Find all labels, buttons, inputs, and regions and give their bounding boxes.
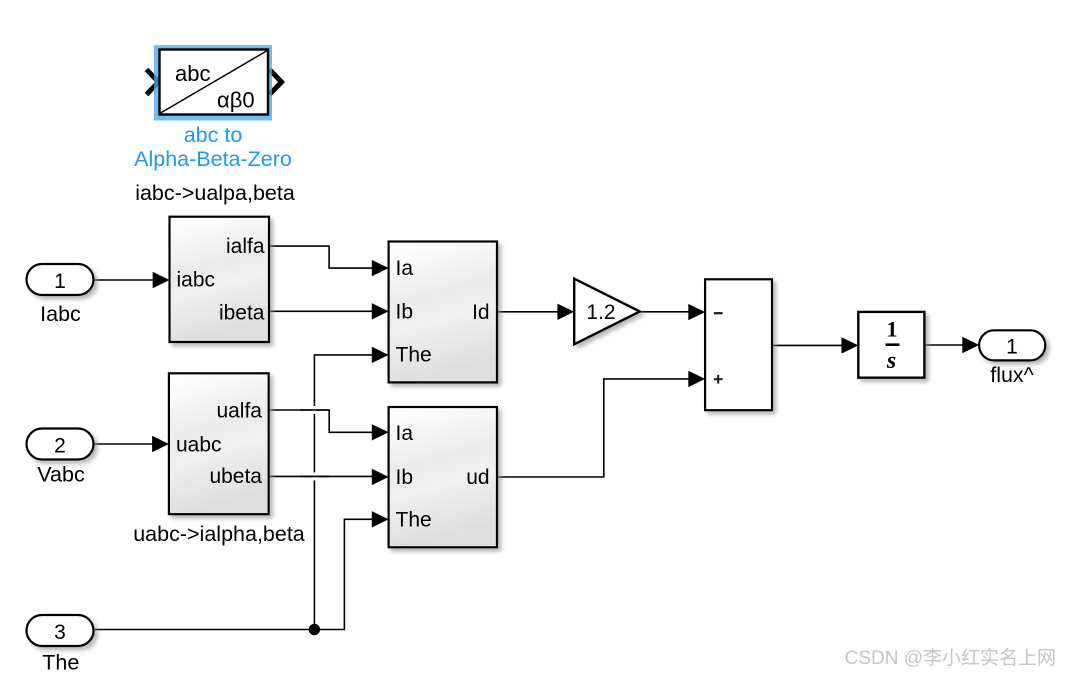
wire: ialfa output to Ia input (block Id) <box>269 246 373 268</box>
U1 body rect <box>160 50 269 115</box>
arrowhead into integrator <box>842 337 859 353</box>
svg-text:abc: abc <box>175 61 210 86</box>
subsystem: uabc -> ualfa/ubeta <box>169 373 269 514</box>
arrowhead into uabc <box>152 436 169 452</box>
wire: inport1 Iabc to subsystem iabc input <box>94 279 157 281</box>
svg-text:ubeta: ubeta <box>209 465 262 488</box>
minus sign <box>714 312 723 314</box>
arrowhead into gain <box>557 304 574 320</box>
svg-text:Ib: Ib <box>396 466 414 489</box>
U1 diagonal line <box>161 51 267 113</box>
svg-text:uabc->ialpha,beta: uabc->ialpha,beta <box>133 522 305 546</box>
svg-text:Ia: Ia <box>396 257 414 280</box>
arrowhead into Ia (ud block) <box>372 424 389 440</box>
svg-text:The: The <box>42 651 79 675</box>
svg-text:ualfa: ualfa <box>216 400 262 423</box>
wire: inport2 Vabc to subsystem uabc input <box>94 443 156 445</box>
arrowhead into Ib (ud block) <box>372 469 389 485</box>
svg-text:ud: ud <box>466 466 489 489</box>
svg-text:iabc: iabc <box>177 269 216 292</box>
wire crossing gap at ubeta line <box>312 472 316 480</box>
svg-text:uabc: uabc <box>176 434 222 457</box>
svg-text:Vabc: Vabc <box>37 463 85 487</box>
svg-text:Iabc: Iabc <box>40 302 81 326</box>
svg-text:s: s <box>886 348 896 374</box>
svg-text:1: 1 <box>887 317 898 342</box>
svg-text:The: The <box>396 344 432 367</box>
svg-text:1: 1 <box>1006 336 1018 359</box>
wire: integrator output to outport <box>924 344 963 346</box>
svg-text:2: 2 <box>54 435 66 458</box>
subsystem: Ia/Ib/The -> Id <box>389 242 497 383</box>
redraw ualfa horizontal over gap <box>300 409 329 411</box>
arrowhead into The (Id block) <box>372 347 389 363</box>
svg-text:abc to: abc to <box>184 123 243 147</box>
sum block <box>705 279 772 410</box>
inport 2 <box>27 429 94 487</box>
arrowhead into Ib (Id block) <box>372 303 389 319</box>
subsystem: Ia/Ib/The -> ud <box>389 407 497 547</box>
svg-text:Ib: Ib <box>396 301 414 324</box>
wire: Id output to gain input <box>497 311 559 313</box>
blue selection frame <box>154 45 272 120</box>
plus sign <box>714 378 723 380</box>
svg-text:The: The <box>396 509 432 532</box>
integrator 1/s <box>858 312 924 378</box>
svg-text:flux^: flux^ <box>990 363 1034 387</box>
arrowhead into sum minus <box>688 304 705 320</box>
arrowhead into iabc <box>153 272 170 288</box>
arrowhead into The (ud block) <box>372 511 389 527</box>
svg-text:Id: Id <box>472 301 490 324</box>
wire: ibeta output to Ib input (block Id) <box>269 310 373 312</box>
subsystem: iabc -> ialfa/ibeta <box>170 217 270 342</box>
inport 3 <box>27 615 94 675</box>
wire: sum output to integrator input <box>772 344 843 346</box>
wire: ubeta output to Ib input (block ud) <box>269 475 373 477</box>
svg-text:Alpha-Beta-Zero: Alpha-Beta-Zero <box>134 147 292 171</box>
wire: ualfa output to Ia input (block ud) <box>269 410 373 432</box>
wire: The branch up to first The input <box>314 355 373 630</box>
wire: inport3 The horizontal run <box>94 519 374 629</box>
svg-text:αβ0: αβ0 <box>217 88 255 113</box>
left input chevron of U1 <box>147 70 159 95</box>
svg-text:iabc->ualpa,beta: iabc->ualpa,beta <box>135 181 295 205</box>
redraw ubeta horizontal over gap <box>300 475 329 477</box>
svg-text:Ia: Ia <box>396 422 414 445</box>
junction dot on The wire <box>309 624 320 635</box>
block U1: abc to Alpha-Beta-Zero (selected, blue frame) <box>134 45 292 171</box>
inport 1 <box>27 264 94 326</box>
wire crossing gap at ualfa line <box>312 406 316 414</box>
arrowhead into sum plus <box>688 371 705 387</box>
svg-text:1: 1 <box>54 270 66 293</box>
svg-text:ialfa: ialfa <box>226 235 265 258</box>
outport 1 flux^ <box>979 330 1045 387</box>
svg-text:ibeta: ibeta <box>219 301 265 324</box>
svg-text:1.2: 1.2 <box>586 301 615 324</box>
arrowhead into outport <box>962 337 979 353</box>
svg-text:3: 3 <box>54 621 66 644</box>
arrowhead into Ia (Id block) <box>372 260 389 276</box>
right output chevron of U1 <box>270 70 282 95</box>
wire: gain output to sum minus input <box>640 311 690 313</box>
wire: ud output to sum plus input <box>497 379 690 477</box>
svg-text:CSDN @李小红实名上网: CSDN @李小红实名上网 <box>845 647 1056 669</box>
gain 1.2 <box>574 279 640 345</box>
